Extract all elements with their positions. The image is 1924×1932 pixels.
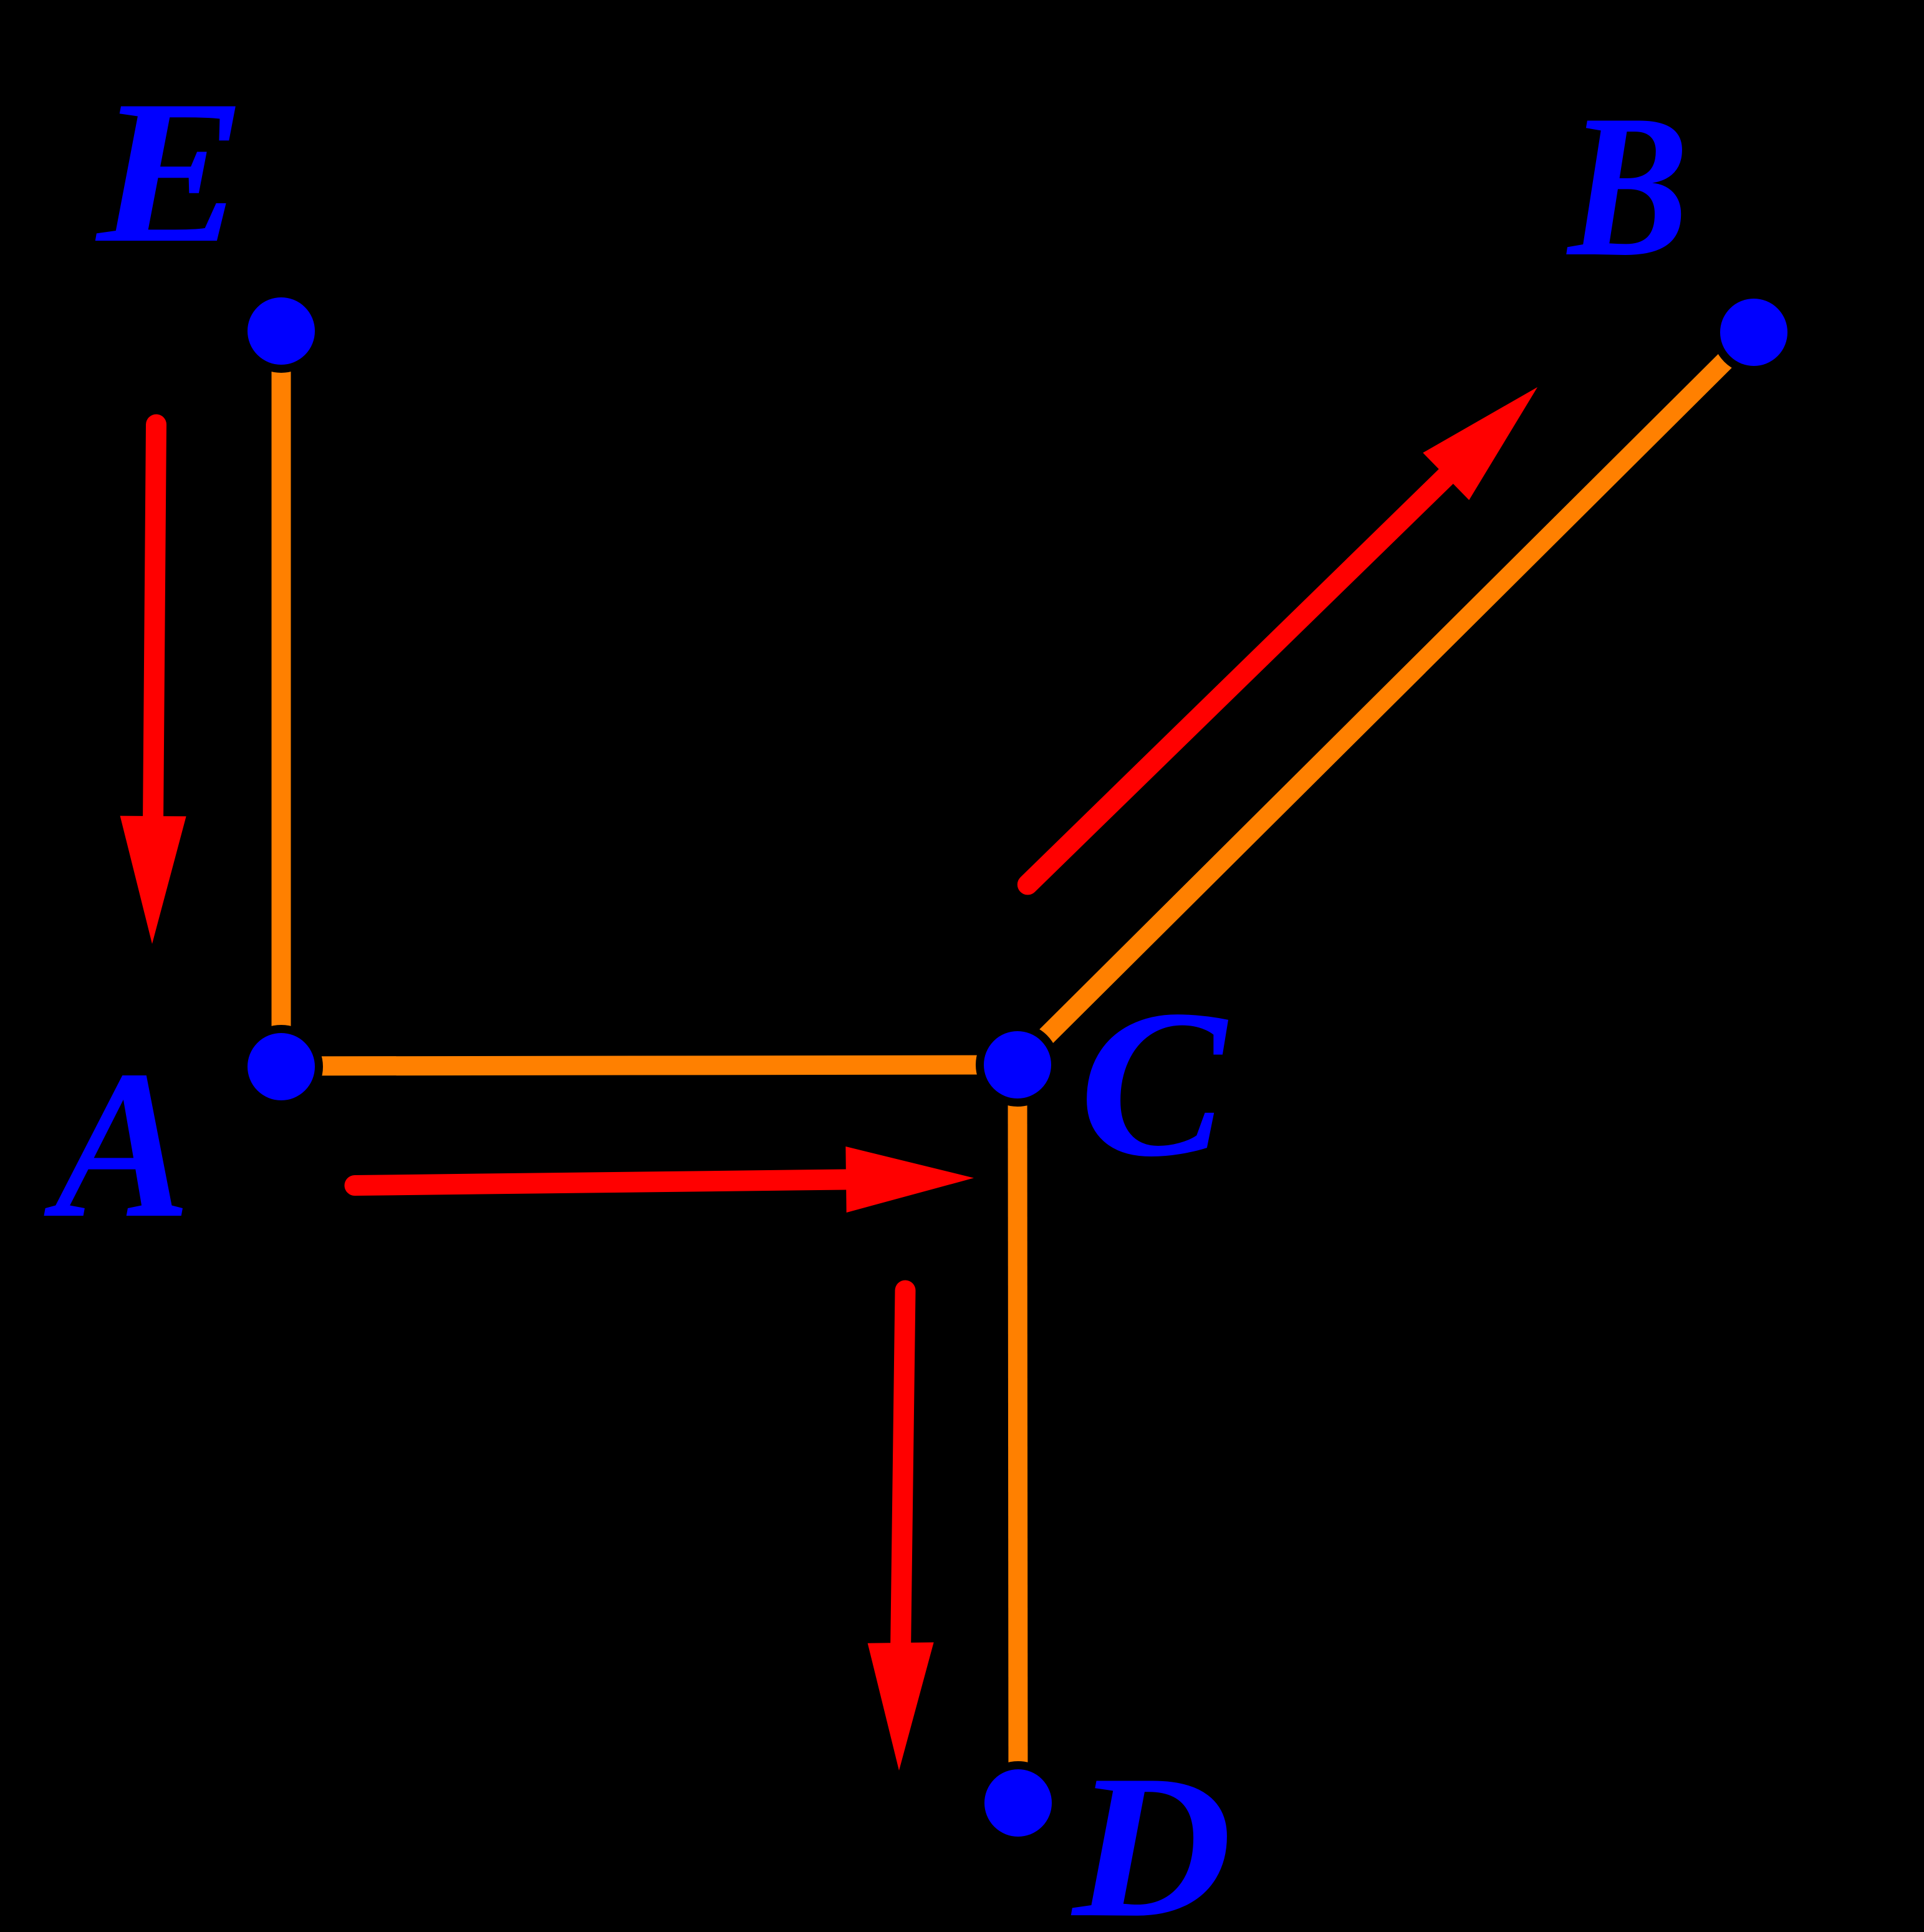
node D — [981, 1766, 1056, 1841]
svg-text:B: B — [1565, 72, 1688, 299]
wire A-C — [281, 1065, 1017, 1066]
wire C-D — [1017, 1065, 1018, 1803]
node E — [244, 294, 319, 369]
svg-text:A: A — [42, 1027, 191, 1262]
svg-text:E: E — [94, 59, 246, 286]
node B — [1716, 295, 1792, 370]
svg-text:D: D — [1069, 1732, 1232, 1932]
svg-text:C: C — [1079, 966, 1231, 1200]
node C — [980, 1027, 1056, 1103]
arrow E to A (downward) — [120, 425, 186, 944]
node A — [244, 1029, 319, 1105]
arrow C to B (diagonal up-right) — [1027, 387, 1537, 885]
wire E-A — [272, 331, 291, 1067]
arrow C to D (downward) — [868, 1290, 934, 1771]
wire C-B — [1017, 332, 1754, 1065]
arrow A to C (rightward) — [355, 1146, 974, 1213]
